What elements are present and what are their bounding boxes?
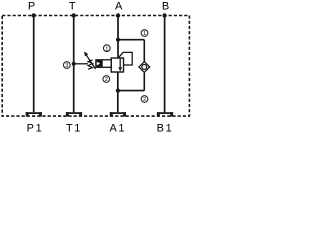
svg-text:P: P bbox=[28, 1, 35, 13]
port T1 connector bbox=[66, 112, 82, 116]
wire bypass right vertical upper bbox=[143, 40, 145, 62]
port number label 1 (check valve) bbox=[141, 30, 148, 37]
svg-text:1: 1 bbox=[105, 46, 108, 52]
wire bypass right vertical lower bbox=[143, 72, 145, 90]
svg-text:P1: P1 bbox=[27, 123, 44, 135]
svg-text:2: 2 bbox=[105, 77, 108, 83]
node A lower junction bbox=[116, 89, 120, 93]
svg-text:B1: B1 bbox=[157, 123, 174, 135]
node B (junction dot on boundary) bbox=[162, 13, 166, 17]
port number label 2 (check valve) bbox=[141, 96, 148, 103]
valve V1 proportional solenoid bbox=[96, 60, 111, 68]
port B1 connector bbox=[157, 112, 173, 116]
valve V1 adjustment arrow bbox=[86, 54, 96, 69]
port A1 connector bbox=[110, 112, 126, 116]
wire bypass top horizontal bbox=[118, 39, 144, 41]
port P1 connector bbox=[26, 112, 42, 116]
valve V1 internal flow path arrow bbox=[119, 58, 121, 68]
node T drain branch junction bbox=[72, 62, 76, 66]
svg-text:T: T bbox=[69, 1, 76, 13]
check valve CV1 bbox=[139, 62, 150, 73]
port number label 3 bbox=[63, 62, 70, 69]
svg-text:T1: T1 bbox=[66, 123, 82, 135]
wire A upper vertical bbox=[117, 16, 119, 59]
wire B vertical bbox=[164, 16, 166, 113]
valve V1 spring bbox=[88, 60, 93, 70]
valve V1 pressure reducing valve body bbox=[111, 58, 123, 72]
node A bypass tap bbox=[116, 38, 120, 42]
wire drain to valve spring bbox=[74, 63, 88, 65]
port number label 1 (valve) bbox=[103, 45, 110, 52]
svg-text:A1: A1 bbox=[109, 123, 126, 135]
svg-text:1: 1 bbox=[143, 31, 146, 37]
node T (junction dot on boundary) bbox=[72, 13, 76, 17]
svg-text:A: A bbox=[115, 1, 123, 13]
enclosure dashed block boundary bbox=[2, 16, 189, 117]
port number label 2 (valve) bbox=[103, 76, 110, 83]
wire T vertical bbox=[73, 16, 75, 113]
svg-text:2: 2 bbox=[143, 97, 146, 103]
node P (junction dot on boundary) bbox=[32, 13, 36, 17]
wire P vertical bbox=[33, 16, 35, 113]
node A (junction dot on boundary) bbox=[116, 13, 120, 17]
valve V1 pilot line bbox=[119, 52, 133, 65]
svg-text:B: B bbox=[162, 1, 169, 13]
wire A lower vertical bbox=[117, 72, 119, 112]
wire bypass bottom horizontal bbox=[118, 90, 144, 92]
svg-text:3: 3 bbox=[65, 63, 68, 69]
